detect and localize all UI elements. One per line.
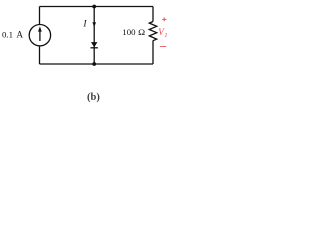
svg-text:A: A — [16, 30, 23, 40]
svg-text:100: 100 — [122, 27, 136, 37]
svg-text:0.1: 0.1 — [2, 30, 13, 40]
svg-text:V1: V1 — [158, 27, 167, 39]
svg-text:(b): (b) — [87, 92, 100, 103]
svg-text:I: I — [82, 19, 87, 29]
svg-text:Ω: Ω — [138, 27, 145, 37]
